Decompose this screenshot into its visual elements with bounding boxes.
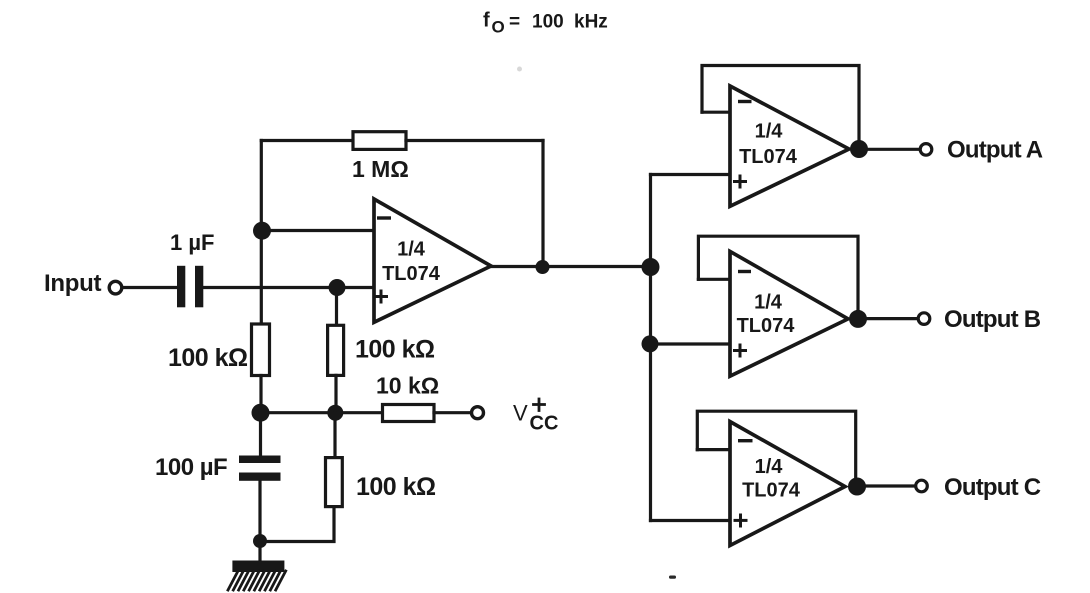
svg-text:Output A: Output A bbox=[947, 137, 1043, 164]
svg-text:100 kΩ: 100 kΩ bbox=[168, 344, 248, 372]
Vcc terminal bbox=[472, 407, 484, 419]
resistor R4 100k bottom bbox=[326, 458, 343, 507]
resistor Rf 1 Mohm bbox=[353, 132, 406, 150]
wire + branch down bbox=[335, 288, 338, 326]
svg-text:Input: Input bbox=[44, 270, 101, 297]
feedback C bbox=[697, 411, 855, 486]
capacitor C1 1uF bbox=[177, 266, 203, 308]
svg-text:1/4: 1/4 bbox=[754, 292, 783, 314]
feedback B bbox=[698, 236, 858, 319]
wire C1 to op-amp U1 + input bbox=[203, 286, 374, 289]
node bus bbox=[642, 258, 660, 276]
svg-text:Output B: Output B bbox=[944, 306, 1041, 333]
node inverting input bbox=[253, 222, 271, 240]
svg-text:1/4: 1/4 bbox=[755, 121, 784, 143]
op-amp U1 bbox=[374, 199, 491, 322]
svg-text:TL074: TL074 bbox=[737, 315, 796, 337]
svg-text:100 kΩ: 100 kΩ bbox=[356, 473, 436, 501]
svg-text:TL074: TL074 bbox=[742, 480, 801, 502]
resistor R2 100k bbox=[328, 325, 344, 375]
wire 10k to Vcc terminal bbox=[434, 411, 471, 414]
node A output bbox=[850, 140, 868, 158]
wire R1 to node bbox=[259, 376, 262, 413]
svg-text:kHz: kHz bbox=[574, 12, 608, 33]
svg-text:Output C: Output C bbox=[944, 474, 1041, 501]
node + input bbox=[329, 279, 346, 296]
svg-text:CC: CC bbox=[530, 413, 559, 435]
wire C output bbox=[857, 484, 915, 487]
wire input terminal to C1 bbox=[123, 286, 178, 289]
terminal B bbox=[918, 313, 930, 325]
wire R2 to node bbox=[334, 375, 337, 412]
node right bias bbox=[327, 405, 343, 421]
plus sign A bbox=[735, 176, 746, 187]
svg-text:1/4: 1/4 bbox=[397, 239, 426, 261]
resistor R3 10k bbox=[383, 405, 435, 422]
resistor R1 100k left bbox=[252, 324, 270, 376]
svg-text:100 µF: 100 µF bbox=[155, 454, 227, 481]
plus sign B bbox=[735, 345, 746, 356]
op-amp A bbox=[730, 86, 849, 206]
wire inverting input bbox=[262, 229, 374, 232]
wire C2 to ground node bbox=[258, 481, 261, 559]
wire R4 branch down bbox=[333, 413, 336, 458]
node left bias bbox=[252, 404, 270, 422]
svg-text:10 kΩ: 10 kΩ bbox=[376, 373, 439, 399]
wire + input C bbox=[651, 519, 731, 522]
op-amp C bbox=[730, 422, 845, 546]
ground bbox=[232, 561, 284, 573]
svg-text:f: f bbox=[483, 10, 490, 32]
wire bus vertical bbox=[649, 175, 652, 521]
terminal A bbox=[920, 144, 932, 156]
svg-text:1/4: 1/4 bbox=[755, 456, 784, 478]
node ground bbox=[253, 534, 267, 548]
wire B output bbox=[858, 317, 918, 320]
node bus B bbox=[642, 335, 659, 352]
svg-text:O: O bbox=[492, 18, 505, 37]
svg-text:TL074: TL074 bbox=[739, 146, 798, 168]
wire U1 output bbox=[491, 265, 651, 268]
label Vcc bbox=[513, 401, 558, 435]
terminal C bbox=[916, 480, 928, 492]
svg-text:V: V bbox=[513, 401, 528, 426]
wire + input A bbox=[651, 173, 731, 176]
wire node to C2 bbox=[259, 413, 262, 456]
wire bias nodes bbox=[261, 411, 383, 414]
capacitor C2 100uF bbox=[239, 456, 281, 481]
svg-text:TL074: TL074 bbox=[382, 263, 441, 285]
input terminal bbox=[109, 281, 122, 294]
plus sign U1 bbox=[376, 291, 387, 302]
wire feedback top left bbox=[261, 139, 353, 142]
node B output bbox=[849, 310, 867, 328]
wire vertical left branch (feedback/R1) bbox=[260, 141, 263, 325]
plus sign C bbox=[735, 515, 746, 526]
wire feedback top right bbox=[406, 139, 543, 142]
svg-text:1 MΩ: 1 MΩ bbox=[352, 156, 409, 182]
scan speck artifacts bbox=[517, 67, 676, 579]
svg-text:1 µF: 1 µF bbox=[170, 230, 214, 255]
wire R4 to ground node bbox=[260, 507, 334, 542]
wire A output bbox=[859, 148, 920, 151]
feedback A bbox=[702, 66, 859, 150]
wire + input B bbox=[650, 342, 730, 345]
title f_O = 100 kHz bbox=[483, 10, 608, 37]
svg-text:=: = bbox=[509, 12, 520, 33]
node U1 output bbox=[536, 260, 550, 274]
wire feedback right vertical bbox=[541, 141, 544, 267]
svg-text:100 kΩ: 100 kΩ bbox=[355, 336, 435, 364]
op-amp B bbox=[730, 251, 848, 376]
svg-text:100: 100 bbox=[532, 12, 564, 33]
node C output bbox=[848, 478, 866, 496]
